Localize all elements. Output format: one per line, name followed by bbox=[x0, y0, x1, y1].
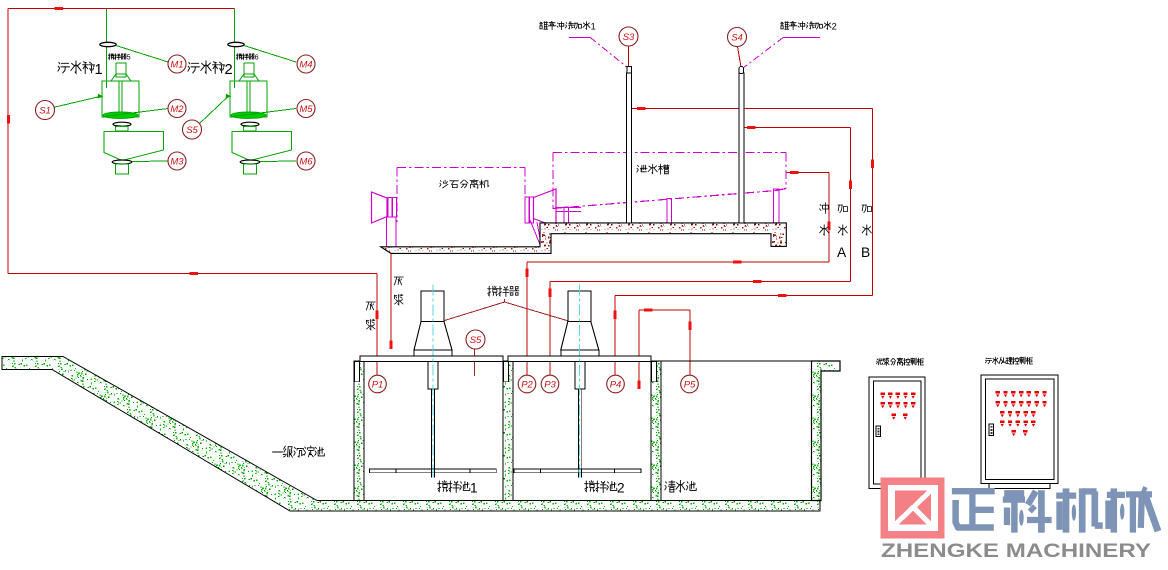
svg-text:1: 1 bbox=[470, 480, 478, 495]
svg-text:P1: P1 bbox=[372, 379, 384, 390]
svg-text:P2: P2 bbox=[521, 379, 533, 390]
svg-text:M1: M1 bbox=[170, 59, 183, 70]
svg-text:P4: P4 bbox=[610, 379, 622, 390]
svg-text:5: 5 bbox=[127, 53, 131, 62]
svg-text:A: A bbox=[837, 245, 847, 260]
svg-text:M5: M5 bbox=[299, 104, 313, 115]
svg-text:2: 2 bbox=[225, 62, 233, 78]
svg-text:S5: S5 bbox=[470, 335, 482, 346]
svg-text:2: 2 bbox=[617, 480, 625, 495]
svg-text:M6: M6 bbox=[299, 156, 313, 167]
svg-text:2: 2 bbox=[832, 22, 837, 32]
svg-text:M4: M4 bbox=[299, 59, 312, 70]
svg-text:B: B bbox=[861, 245, 870, 260]
svg-text:1: 1 bbox=[591, 22, 596, 32]
svg-text:M2: M2 bbox=[170, 104, 184, 115]
svg-text:S5: S5 bbox=[186, 125, 198, 136]
svg-text:1: 1 bbox=[95, 62, 103, 78]
svg-text:P3: P3 bbox=[544, 379, 556, 390]
svg-text:S4: S4 bbox=[731, 32, 743, 43]
svg-text:P5: P5 bbox=[684, 379, 696, 390]
svg-text:S3: S3 bbox=[623, 32, 635, 43]
svg-text:6: 6 bbox=[255, 53, 259, 62]
svg-text:ZHENGKE MACHINERY: ZHENGKE MACHINERY bbox=[881, 540, 1151, 562]
svg-text:S1: S1 bbox=[39, 105, 51, 116]
svg-text:M3: M3 bbox=[170, 156, 184, 167]
